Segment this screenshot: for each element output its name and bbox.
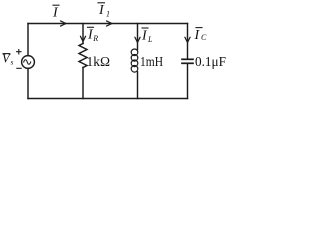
svg-text:C: C [201, 33, 207, 42]
svg-text:s: s [11, 58, 14, 67]
label Vs macron [3, 53, 10, 55]
capacitor 0.1uF top plate [182, 58, 193, 60]
label IC macron [196, 27, 202, 29]
current arrow I head [61, 21, 67, 26]
wire inductor branch upper [137, 24, 139, 50]
label IR macron [88, 26, 94, 28]
inductor 1mH coil [131, 49, 138, 56]
svg-text:I: I [52, 6, 59, 21]
label I1 macron [98, 2, 105, 4]
svg-text:I: I [141, 29, 148, 44]
wire top [28, 23, 188, 25]
wire inductor branch lower [137, 72, 139, 99]
voltage source Vs sine wave [24, 60, 31, 65]
resistor 1k ohm zigzag [79, 44, 87, 68]
label I macron [53, 4, 59, 6]
wire bottom [28, 98, 188, 100]
current arrow IR head [80, 36, 85, 41]
wire left lower [27, 68, 29, 98]
svg-text:R: R [92, 34, 98, 43]
wire capacitor branch upper [187, 24, 189, 59]
current arrow IC head [185, 37, 190, 42]
svg-text:1kΩ: 1kΩ [87, 55, 111, 70]
svg-text:I: I [98, 3, 105, 18]
wire left upper [27, 24, 29, 56]
wire resistor branch lower [82, 68, 84, 99]
capacitor 0.1uF bottom plate [182, 62, 193, 64]
voltage source Vs circle [22, 56, 35, 69]
current arrow I1 head [107, 21, 113, 26]
svg-text:1mH: 1mH [140, 55, 163, 70]
voltage source plus sign [17, 50, 21, 54]
current arrow IL head [135, 37, 140, 42]
voltage source minus sign [17, 67, 21, 69]
wire capacitor branch lower [187, 64, 189, 99]
svg-text:1: 1 [106, 10, 110, 19]
svg-text:I: I [194, 28, 201, 43]
label IL macron [142, 27, 148, 29]
svg-text:L: L [147, 35, 153, 44]
svg-text:0.1μF: 0.1μF [195, 55, 226, 70]
wire resistor branch upper [82, 24, 84, 44]
